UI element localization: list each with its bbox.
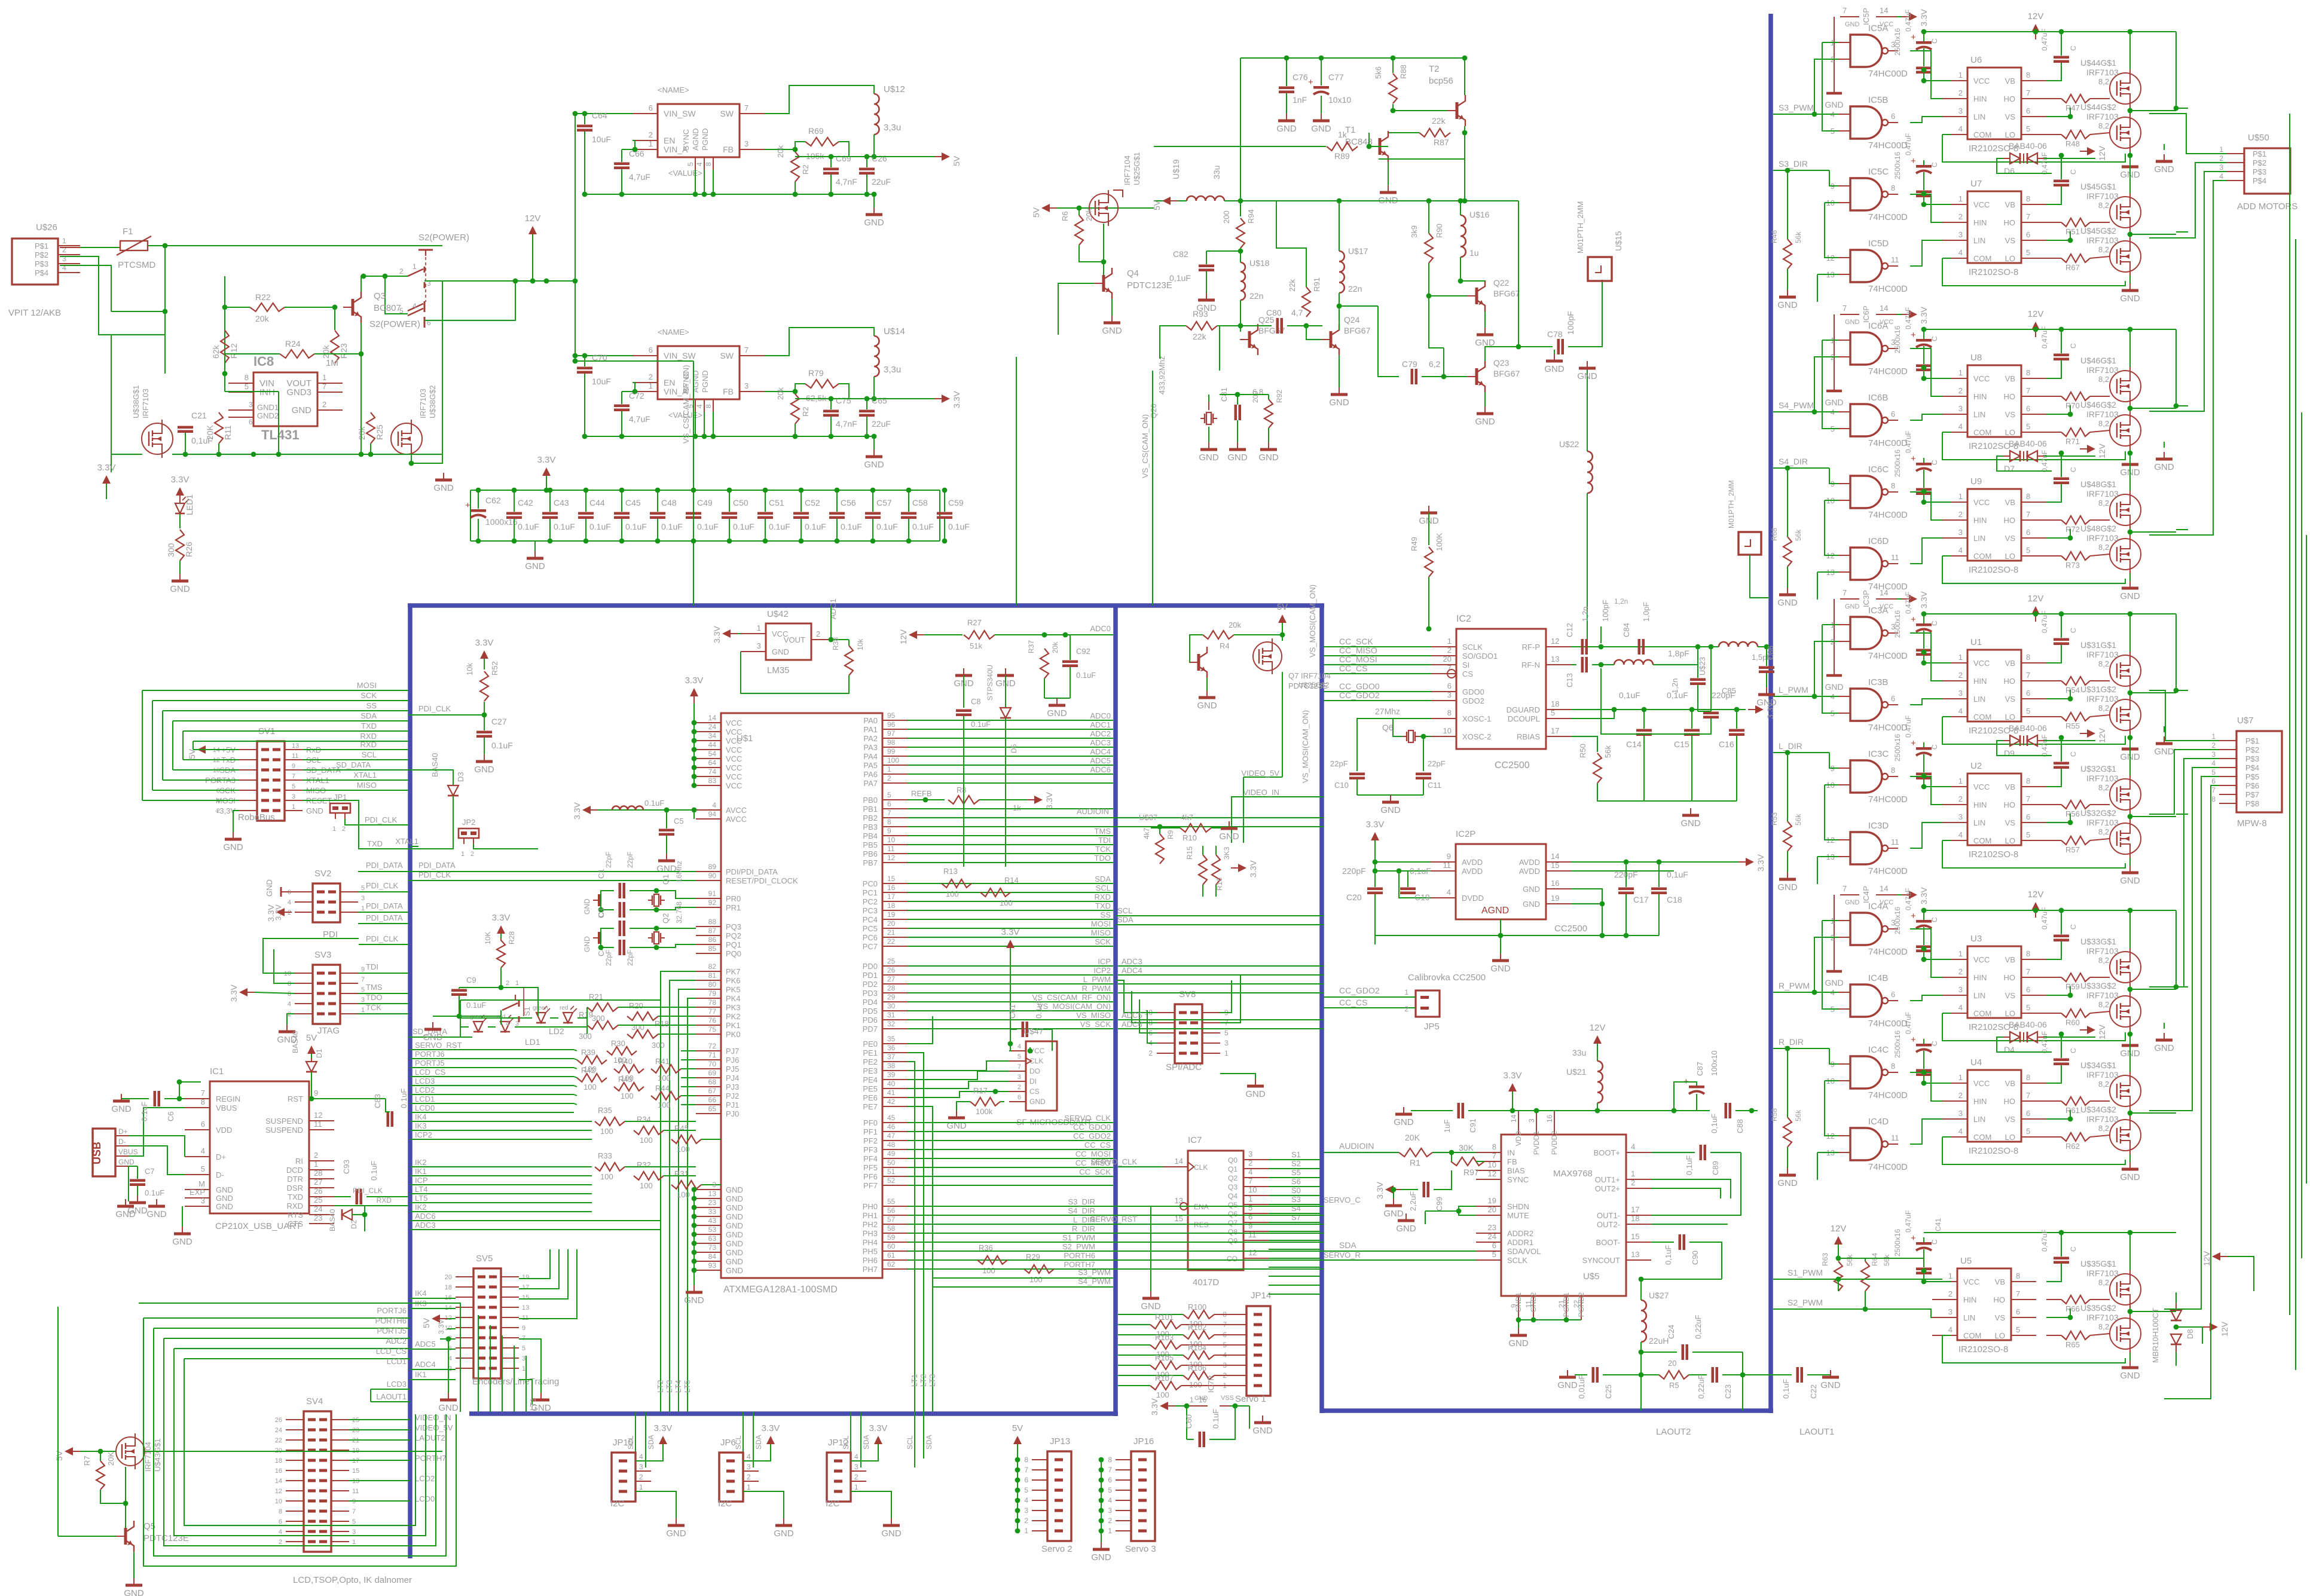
svg-text:3.3V: 3.3V bbox=[537, 455, 556, 465]
svg-text:R67: R67 bbox=[2065, 263, 2080, 272]
svg-text:C76: C76 bbox=[1292, 72, 1308, 82]
svg-text:CC_GDO0: CC_GDO0 bbox=[1339, 681, 1380, 691]
svg-text:SERVO_CLK: SERVO_CLK bbox=[1064, 1114, 1111, 1123]
svg-text:VS: VS bbox=[2005, 1115, 2016, 1124]
svg-text:LCD1: LCD1 bbox=[415, 1094, 435, 1103]
svg-text:GND: GND bbox=[1523, 885, 1540, 894]
svg-text:R14: R14 bbox=[1004, 876, 1019, 885]
svg-text:3: 3 bbox=[522, 1355, 525, 1362]
svg-text:R9: R9 bbox=[1166, 830, 1175, 839]
svg-text:U5: U5 bbox=[1960, 1256, 1972, 1266]
svg-text:3.3V: 3.3V bbox=[685, 675, 704, 686]
svg-text:I2C: I2C bbox=[610, 1499, 625, 1509]
svg-text:2: 2 bbox=[1631, 1178, 1635, 1187]
svg-text:DCD: DCD bbox=[286, 1166, 303, 1175]
svg-text:M01PTH_2MM: M01PTH_2MM bbox=[1727, 480, 1735, 528]
svg-text:PF4: PF4 bbox=[863, 1154, 878, 1163]
svg-text:8: 8 bbox=[1024, 1456, 1028, 1464]
svg-text:1: 1 bbox=[1224, 1049, 1229, 1057]
svg-text:4: 4 bbox=[1631, 1142, 1635, 1151]
svg-text:7: 7 bbox=[744, 346, 748, 354]
svg-text:12V: 12V bbox=[2097, 727, 2107, 743]
svg-text:8: 8 bbox=[704, 404, 713, 408]
svg-text:R69: R69 bbox=[808, 126, 824, 136]
svg-text:PE3: PE3 bbox=[863, 1066, 878, 1075]
svg-text:27Mhz: 27Mhz bbox=[1375, 707, 1400, 716]
svg-text:45: 45 bbox=[887, 1114, 896, 1122]
svg-text:P$8: P$8 bbox=[2245, 799, 2259, 808]
svg-text:DGUARD: DGUARD bbox=[1507, 705, 1540, 714]
svg-text:CC_GDO0: CC_GDO0 bbox=[1073, 1123, 1111, 1132]
svg-text:3.3V: 3.3V bbox=[1375, 1182, 1385, 1199]
svg-text:PDI_CLK: PDI_CLK bbox=[353, 1187, 383, 1195]
svg-text:R60: R60 bbox=[2065, 1018, 2080, 1027]
svg-text:8: 8 bbox=[1891, 1062, 1895, 1071]
svg-text:SO/GDO1: SO/GDO1 bbox=[1462, 652, 1498, 661]
svg-text:ADC2: ADC2 bbox=[386, 1337, 407, 1346]
svg-text:8,2: 8,2 bbox=[2098, 704, 2109, 713]
svg-text:PD3: PD3 bbox=[863, 989, 878, 998]
svg-text:37: 37 bbox=[887, 1053, 896, 1061]
svg-text:12: 12 bbox=[1488, 1169, 1496, 1178]
svg-text:IC7: IC7 bbox=[1188, 1135, 1202, 1145]
svg-text:GND: GND bbox=[124, 1588, 144, 1596]
svg-text:100: 100 bbox=[1029, 1275, 1043, 1284]
svg-text:GND: GND bbox=[1577, 371, 1597, 381]
svg-text:29: 29 bbox=[887, 993, 896, 1001]
svg-text:26: 26 bbox=[275, 1417, 282, 1424]
svg-text:C84: C84 bbox=[1622, 623, 1631, 637]
svg-text:GND: GND bbox=[118, 1158, 135, 1166]
svg-text:IRF7103: IRF7103 bbox=[2086, 191, 2119, 201]
svg-text:R22: R22 bbox=[255, 292, 271, 302]
svg-text:7: 7 bbox=[1248, 1176, 1252, 1185]
svg-text:PH2: PH2 bbox=[863, 1220, 878, 1229]
svg-text:0.1uF: 0.1uF bbox=[369, 1161, 378, 1181]
svg-text:13: 13 bbox=[522, 1304, 529, 1311]
svg-text:PDTC123E: PDTC123E bbox=[1127, 280, 1172, 291]
svg-text:4,7nF: 4,7nF bbox=[836, 177, 857, 186]
svg-text:1: 1 bbox=[649, 381, 653, 390]
svg-text:0,47uF: 0,47uF bbox=[1904, 1210, 1912, 1233]
svg-text:19: 19 bbox=[1488, 1196, 1496, 1205]
svg-text:DI: DI bbox=[1029, 1077, 1037, 1086]
svg-text:LT5: LT5 bbox=[683, 1380, 692, 1393]
svg-text:16: 16 bbox=[887, 883, 896, 892]
svg-text:3: 3 bbox=[201, 1196, 205, 1205]
svg-text:R91: R91 bbox=[1312, 277, 1321, 292]
svg-text:TXD: TXD bbox=[361, 721, 377, 730]
svg-text:12V: 12V bbox=[2028, 11, 2044, 22]
svg-text:2: 2 bbox=[1108, 1516, 1112, 1525]
svg-text:P$1: P$1 bbox=[35, 241, 48, 250]
svg-text:3: 3 bbox=[757, 641, 761, 650]
svg-text:100: 100 bbox=[677, 1145, 690, 1154]
svg-text:LO: LO bbox=[2005, 1009, 2015, 1018]
svg-text:C8: C8 bbox=[971, 697, 981, 706]
svg-text:GND: GND bbox=[265, 879, 274, 897]
svg-text:13: 13 bbox=[292, 742, 299, 750]
svg-text:VCC: VCC bbox=[1973, 659, 1990, 668]
svg-text:PH3: PH3 bbox=[863, 1229, 878, 1238]
svg-text:RoboBus: RoboBus bbox=[238, 812, 275, 823]
svg-text:VS: VS bbox=[2005, 236, 2016, 245]
svg-text:S4_DIR: S4_DIR bbox=[1068, 1206, 1095, 1215]
svg-text:9: 9 bbox=[361, 966, 365, 973]
svg-text:5: 5 bbox=[2026, 1127, 2030, 1136]
svg-text:24: 24 bbox=[1488, 1232, 1496, 1241]
svg-text:7: 7 bbox=[2026, 967, 2030, 976]
svg-text:0.1uF: 0.1uF bbox=[491, 741, 513, 750]
svg-text:0.1uF: 0.1uF bbox=[661, 522, 683, 531]
svg-text:24: 24 bbox=[708, 723, 717, 731]
svg-text:5: 5 bbox=[2026, 1003, 2030, 1012]
svg-text:4k7: 4k7 bbox=[1142, 827, 1151, 839]
svg-text:R104: R104 bbox=[1188, 1343, 1206, 1352]
svg-text:17: 17 bbox=[522, 1284, 529, 1291]
svg-text:Q4: Q4 bbox=[1228, 1192, 1237, 1200]
svg-text:PDI_DATA: PDI_DATA bbox=[366, 901, 403, 910]
svg-text:12: 12 bbox=[275, 1488, 282, 1495]
svg-text:C83: C83 bbox=[373, 1094, 382, 1108]
svg-text:C78: C78 bbox=[1547, 329, 1563, 339]
svg-text:BAB40-06: BAB40-06 bbox=[2009, 141, 2047, 151]
svg-text:GND: GND bbox=[216, 1185, 233, 1194]
svg-text:U$31G$2: U$31G$2 bbox=[2080, 684, 2116, 694]
svg-text:C: C bbox=[2069, 1246, 2077, 1252]
svg-text:S2_PWM: S2_PWM bbox=[1787, 1298, 1823, 1307]
svg-text:2: 2 bbox=[1248, 1158, 1252, 1167]
svg-text:IRF7103: IRF7103 bbox=[2086, 1070, 2119, 1080]
svg-text:GND: GND bbox=[1091, 1552, 1111, 1563]
svg-text:2: 2 bbox=[854, 1473, 858, 1481]
svg-text:CP210X_USB_UART: CP210X_USB_UART bbox=[215, 1221, 301, 1231]
svg-text:GND: GND bbox=[1380, 805, 1401, 815]
svg-text:PORTJ6: PORTJ6 bbox=[377, 1306, 407, 1315]
svg-text:PA3: PA3 bbox=[863, 743, 878, 752]
svg-text:C: C bbox=[2069, 628, 2077, 633]
svg-text:CC_GDO2: CC_GDO2 bbox=[1339, 986, 1380, 995]
svg-text:2: 2 bbox=[816, 629, 820, 638]
svg-text:C5: C5 bbox=[674, 817, 684, 825]
svg-text:7: 7 bbox=[1842, 588, 1847, 597]
svg-text:VS: VS bbox=[2005, 112, 2016, 121]
svg-text:green: green bbox=[533, 1005, 548, 1011]
svg-text:2: 2 bbox=[1447, 646, 1452, 655]
svg-text:6: 6 bbox=[2026, 812, 2030, 821]
svg-text:21: 21 bbox=[887, 928, 896, 937]
svg-text:44: 44 bbox=[708, 741, 717, 749]
svg-text:100pF: 100pF bbox=[1566, 311, 1575, 335]
svg-text:51k: 51k bbox=[970, 641, 982, 650]
svg-text:PF2: PF2 bbox=[863, 1136, 878, 1145]
svg-text:IRF7103: IRF7103 bbox=[2086, 1313, 2119, 1322]
svg-text:5: 5 bbox=[686, 162, 695, 166]
svg-text:GDO0: GDO0 bbox=[1462, 687, 1484, 696]
svg-text:D3: D3 bbox=[456, 772, 465, 782]
svg-text:C19: C19 bbox=[1414, 892, 1430, 902]
svg-text:C7: C7 bbox=[145, 1167, 155, 1176]
svg-text:4: 4 bbox=[712, 801, 716, 809]
svg-text:VB: VB bbox=[2005, 782, 2015, 791]
svg-text:C27: C27 bbox=[491, 717, 507, 726]
svg-text:CC_MOSI: CC_MOSI bbox=[1339, 655, 1377, 664]
svg-text:IR2102SO-8: IR2102SO-8 bbox=[1958, 1344, 2008, 1355]
svg-text:12: 12 bbox=[1248, 1248, 1257, 1257]
svg-text:22n: 22n bbox=[1348, 284, 1362, 293]
svg-text:3: 3 bbox=[744, 139, 748, 148]
svg-text:LT2: LT2 bbox=[919, 1374, 928, 1387]
svg-text:ADC1: ADC1 bbox=[829, 598, 838, 619]
svg-text:OUT2+: OUT2+ bbox=[1595, 1184, 1620, 1193]
svg-text:LED1: LED1 bbox=[185, 494, 194, 515]
svg-text:U$25G$1: U$25G$1 bbox=[1132, 152, 1141, 185]
svg-text:4k7: 4k7 bbox=[1181, 813, 1193, 822]
svg-text:DO: DO bbox=[1029, 1067, 1040, 1075]
svg-text:VSS: VSS bbox=[1221, 1395, 1234, 1402]
svg-text:1,0pF: 1,0pF bbox=[1642, 602, 1651, 622]
svg-text:R42: R42 bbox=[581, 1066, 595, 1075]
svg-text:3: 3 bbox=[1224, 1039, 1229, 1047]
svg-text:PA4: PA4 bbox=[863, 752, 878, 761]
svg-text:AVDD: AVDD bbox=[1462, 867, 1483, 876]
svg-text:GND: GND bbox=[216, 1202, 233, 1211]
svg-text:GND: GND bbox=[1227, 452, 1248, 463]
svg-text:OUT2-: OUT2- bbox=[1597, 1220, 1620, 1229]
svg-text:3K3: 3K3 bbox=[1223, 846, 1231, 860]
svg-text:74HC00D: 74HC00D bbox=[1868, 284, 1908, 294]
svg-text:1: 1 bbox=[1948, 1271, 1952, 1280]
svg-text:ADC6: ADC6 bbox=[1090, 765, 1111, 774]
svg-text:0,47uF: 0,47uF bbox=[2040, 1230, 2049, 1252]
svg-text:20K: 20K bbox=[205, 424, 215, 440]
svg-text:P$3: P$3 bbox=[35, 259, 48, 268]
svg-text:R46: R46 bbox=[1770, 230, 1779, 243]
svg-text:C80: C80 bbox=[1266, 308, 1282, 317]
svg-text:0.1uF: 0.1uF bbox=[971, 720, 991, 729]
svg-text:R16: R16 bbox=[1215, 878, 1224, 891]
svg-text:C16: C16 bbox=[1719, 739, 1734, 749]
svg-text:R51: R51 bbox=[2065, 227, 2080, 236]
svg-text:8,2: 8,2 bbox=[2098, 77, 2109, 86]
svg-text:PH1: PH1 bbox=[863, 1211, 878, 1220]
svg-text:3.3V: 3.3V bbox=[266, 904, 276, 922]
svg-text:PK1: PK1 bbox=[726, 1021, 741, 1030]
svg-text:8,2: 8,2 bbox=[2098, 375, 2109, 384]
svg-text:AVDD: AVDD bbox=[1462, 858, 1483, 867]
svg-text:LD2: LD2 bbox=[549, 1026, 564, 1036]
svg-text:C82: C82 bbox=[1173, 249, 1188, 259]
svg-text:13: 13 bbox=[1631, 1250, 1639, 1259]
svg-text:PA0: PA0 bbox=[863, 716, 878, 725]
svg-text:D5: D5 bbox=[1010, 744, 1018, 753]
svg-text:SI: SI bbox=[1462, 661, 1469, 669]
svg-text:15: 15 bbox=[1551, 861, 1559, 870]
svg-text:23: 23 bbox=[708, 1198, 717, 1207]
svg-text:2: 2 bbox=[649, 130, 653, 139]
svg-text:S2(POWER): S2(POWER) bbox=[418, 233, 469, 243]
svg-text:14: 14 bbox=[1510, 1114, 1518, 1123]
svg-text:C51: C51 bbox=[769, 498, 784, 507]
svg-text:18: 18 bbox=[445, 1284, 452, 1291]
svg-text:PC4: PC4 bbox=[863, 915, 878, 924]
svg-text:VIN_SW: VIN_SW bbox=[664, 351, 696, 360]
svg-text:VCC: VCC bbox=[1973, 955, 1990, 964]
svg-text:VS_CS(CAM_RF_ON): VS_CS(CAM_RF_ON) bbox=[1032, 993, 1111, 1002]
svg-text:GND3: GND3 bbox=[286, 387, 311, 398]
svg-text:GND: GND bbox=[2154, 164, 2174, 175]
svg-text:PJ0: PJ0 bbox=[726, 1109, 739, 1118]
svg-text:R57: R57 bbox=[2065, 845, 2080, 854]
svg-text:1: 1 bbox=[1631, 1169, 1635, 1178]
svg-text:7: 7 bbox=[1842, 304, 1847, 313]
svg-text:IC6A: IC6A bbox=[1868, 321, 1888, 331]
svg-text:PJ5: PJ5 bbox=[726, 1065, 739, 1074]
svg-text:PORTH7: PORTH7 bbox=[415, 1454, 447, 1463]
svg-text:24: 24 bbox=[314, 1204, 322, 1213]
svg-text:GND: GND bbox=[1508, 1338, 1529, 1349]
svg-text:10K: 10K bbox=[484, 932, 492, 944]
svg-text:COM: COM bbox=[1973, 552, 1991, 561]
svg-text:56k: 56k bbox=[1883, 1254, 1891, 1266]
svg-text:6: 6 bbox=[2026, 985, 2030, 994]
svg-text:0,1uF: 0,1uF bbox=[1667, 870, 1688, 879]
svg-text:CC_CS: CC_CS bbox=[1339, 664, 1367, 673]
svg-text:HIN: HIN bbox=[1973, 516, 1987, 525]
svg-text:4: 4 bbox=[288, 1001, 291, 1008]
svg-text:VS: VS bbox=[2005, 410, 2016, 419]
svg-text:5: 5 bbox=[2026, 124, 2030, 133]
svg-text:VBUS: VBUS bbox=[118, 1148, 138, 1156]
svg-text:IC3B: IC3B bbox=[1868, 677, 1888, 687]
svg-text:CC2500: CC2500 bbox=[1554, 924, 1587, 934]
svg-text:4017D: 4017D bbox=[1193, 1277, 1219, 1288]
svg-text:1uF: 1uF bbox=[1443, 1120, 1452, 1133]
svg-text:VCC: VCC bbox=[1963, 1277, 1979, 1286]
svg-text:GND: GND bbox=[1047, 708, 1067, 718]
svg-text:GND: GND bbox=[1276, 124, 1297, 134]
svg-text:1: 1 bbox=[1404, 988, 1408, 996]
svg-text:78: 78 bbox=[708, 998, 717, 1007]
svg-text:74HC00D: 74HC00D bbox=[1868, 947, 1908, 957]
svg-text:39: 39 bbox=[887, 1071, 896, 1079]
svg-text:20: 20 bbox=[1668, 1359, 1676, 1368]
svg-text:S3_DIR: S3_DIR bbox=[1068, 1197, 1095, 1206]
svg-text:R30: R30 bbox=[611, 1039, 625, 1048]
svg-text:40: 40 bbox=[887, 1080, 896, 1088]
svg-text:3.3V: 3.3V bbox=[229, 984, 239, 1002]
svg-text:TDO: TDO bbox=[366, 993, 382, 1002]
svg-text:0,47uF: 0,47uF bbox=[1904, 592, 1912, 614]
svg-text:6: 6 bbox=[1492, 1241, 1496, 1250]
svg-text:23: 23 bbox=[1488, 1223, 1496, 1232]
svg-text:GND: GND bbox=[1523, 900, 1540, 909]
svg-text:22uF: 22uF bbox=[872, 177, 891, 186]
svg-text:PVDD2: PVDD2 bbox=[1550, 1131, 1559, 1155]
svg-text:R27: R27 bbox=[967, 618, 982, 627]
svg-text:U$34G$1: U$34G$1 bbox=[2080, 1060, 2116, 1070]
svg-text:U7: U7 bbox=[1970, 179, 1982, 189]
svg-text:8: 8 bbox=[2026, 776, 2030, 785]
svg-text:S0: S0 bbox=[1291, 1186, 1301, 1195]
svg-text:PD7: PD7 bbox=[863, 1025, 878, 1034]
svg-text:EN: EN bbox=[664, 378, 675, 387]
svg-text:HIN: HIN bbox=[1973, 677, 1987, 686]
svg-text:PA2: PA2 bbox=[863, 734, 878, 743]
svg-text:18: 18 bbox=[275, 1457, 282, 1464]
svg-text:VB: VB bbox=[1995, 1277, 2005, 1286]
svg-text:5: 5 bbox=[1224, 1029, 1229, 1037]
svg-text:D1: D1 bbox=[315, 1048, 323, 1058]
svg-text:5: 5 bbox=[1492, 1250, 1496, 1259]
svg-text:GND: GND bbox=[111, 1104, 132, 1114]
svg-text:P$2: P$2 bbox=[35, 250, 48, 259]
svg-text:83: 83 bbox=[708, 776, 717, 785]
svg-text:2: 2 bbox=[1958, 510, 1963, 519]
svg-text:22k: 22k bbox=[1288, 279, 1297, 292]
svg-text:SW: SW bbox=[720, 109, 734, 118]
svg-text:2: 2 bbox=[639, 1473, 643, 1481]
svg-text:C44: C44 bbox=[589, 498, 605, 507]
svg-text:F1: F1 bbox=[123, 227, 133, 237]
svg-text:5: 5 bbox=[292, 783, 295, 790]
svg-text:8,2: 8,2 bbox=[2098, 1322, 2109, 1331]
svg-text:22k: 22k bbox=[1193, 332, 1207, 341]
svg-text:2: 2 bbox=[322, 400, 326, 409]
svg-text:98: 98 bbox=[887, 738, 896, 747]
svg-text:R23: R23 bbox=[339, 343, 349, 359]
svg-text:GND: GND bbox=[1394, 1117, 1414, 1127]
svg-text:R41: R41 bbox=[655, 1057, 670, 1066]
svg-text:1: 1 bbox=[361, 1007, 365, 1014]
svg-text:R36: R36 bbox=[979, 1243, 993, 1252]
svg-text:0,1uF: 0,1uF bbox=[1619, 690, 1640, 700]
svg-text:SDA: SDA bbox=[862, 1435, 870, 1450]
svg-text:R87: R87 bbox=[1434, 137, 1449, 147]
svg-text:BAB40-06: BAB40-06 bbox=[2009, 1020, 2047, 1029]
svg-text:GND: GND bbox=[2154, 462, 2174, 472]
svg-text:GND: GND bbox=[1544, 364, 1565, 374]
svg-text:R44: R44 bbox=[655, 1084, 670, 1093]
svg-text:0.1uF: 0.1uF bbox=[1076, 671, 1096, 680]
svg-text:2: 2 bbox=[1958, 794, 1963, 803]
svg-text:GND: GND bbox=[146, 1209, 167, 1219]
svg-text:U$46G$2: U$46G$2 bbox=[2080, 400, 2116, 409]
svg-text:8: 8 bbox=[1108, 1456, 1112, 1464]
svg-text:Q1: Q1 bbox=[661, 875, 670, 885]
svg-text:IK3: IK3 bbox=[415, 1121, 427, 1130]
svg-text:U$17: U$17 bbox=[1348, 246, 1368, 256]
svg-text:1: 1 bbox=[2211, 732, 2216, 741]
svg-text:PJ7: PJ7 bbox=[726, 1047, 739, 1056]
svg-text:R89: R89 bbox=[1334, 151, 1350, 161]
svg-text:18: 18 bbox=[1631, 1214, 1639, 1223]
svg-text:PE1: PE1 bbox=[863, 1048, 878, 1057]
svg-text:R102: R102 bbox=[1188, 1323, 1206, 1332]
svg-text:R12: R12 bbox=[229, 343, 239, 359]
svg-text:84: 84 bbox=[708, 1252, 717, 1261]
svg-text:AGND: AGND bbox=[691, 370, 700, 393]
svg-text:22pF: 22pF bbox=[604, 852, 613, 868]
svg-text:PB2: PB2 bbox=[863, 814, 878, 823]
svg-text:5V: 5V bbox=[421, 1317, 431, 1328]
svg-text:AGND: AGND bbox=[691, 128, 700, 151]
svg-text:S1_PWM: S1_PWM bbox=[1787, 1268, 1823, 1277]
svg-text:LO: LO bbox=[2005, 254, 2015, 263]
svg-text:5: 5 bbox=[201, 1164, 205, 1173]
svg-text:BAS40: BAS40 bbox=[291, 1031, 300, 1053]
svg-text:+: + bbox=[1911, 1035, 1916, 1045]
